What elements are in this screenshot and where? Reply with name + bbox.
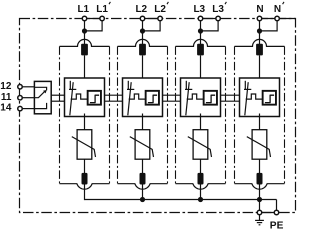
node junction L2 [140,28,145,33]
module L1 bottom edge with socket arc [60,184,110,190]
spark gap contact bar L2 [127,88,134,90]
wire plug L2 to PE bus [142,185,144,201]
spark gap moving electrode L1 [70,82,73,115]
mechanical coupling module L1-L2 (upper) [105,94,123,96]
module L3 top edge with plug socket arc [176,39,226,46]
trigger step symbol N [265,95,274,102]
bottom plug contact L1 (filled) [82,173,88,185]
wire plug L3 to PE bus [200,185,202,201]
svg-text:11: 11 [1,92,12,103]
module N boundary right (dash-dot) [284,46,286,183]
wire varistor to bottom plug N [259,159,261,175]
wire N&#8242; drop to junction [260,21,278,31]
svg-text:N: N [274,4,281,15]
ground symbol bar 1 [255,219,264,221]
bottom plug contact N (filled) [257,173,263,185]
module L1 boundary right (dash-dot) [109,46,111,183]
module L2 boundary right (dash-dot) [167,46,169,183]
wire disconnector to spark-gap box N [259,55,261,78]
node junction L3 [198,28,203,33]
spark gap electrode N [244,81,246,89]
module N bottom edge with socket arc [235,184,285,190]
spark gap contact bar L1 [69,88,76,90]
terminal 14 [18,106,23,111]
svg-text:PE: PE [270,221,284,232]
wire L2 drop to junction [142,21,144,44]
module L3 boundary right (dash-dot) [225,46,227,183]
mechanical coupling module L3-N (lower) [221,100,240,102]
mechanical coupling contact-to-module L1 (upper) [51,94,64,96]
svg-text:12: 12 [0,81,12,92]
wire spark-gap box to varistor L3 [200,114,202,130]
mechanical coupling module L2-L3 (upper) [163,94,181,96]
trigger tap square-wave link L2 [129,94,146,99]
module L2 boundary left (dash-dot) [117,46,119,183]
node PE bus junction N [257,197,262,202]
node PE bus junction L2 [140,197,145,202]
wire plug L1 to PE bus [84,185,86,201]
wire varistor to bottom plug L2 [142,159,144,175]
varistor L2 diagonal stroke [130,137,154,157]
terminal 11 [18,95,23,100]
mechanical coupling module L3-N (upper) [221,94,240,96]
contact 12 fixed (NC) [34,87,46,90]
outer enclosure dash-dot border [20,19,296,213]
spark gap contact bar N [244,88,251,90]
module N top edge with plug socket arc [235,39,285,46]
varistor N body [252,130,267,160]
spark gap electrode L1 [69,81,71,89]
wire L2&#8242; drop to junction [143,21,161,31]
thermal disconnector L1 (filled) [81,44,88,56]
thermal disconnector L2 (filled) [139,44,146,56]
spark gap contact bar L3 [185,88,192,90]
contact blade arrowhead [43,90,47,94]
wire disconnector to spark-gap box L1 [84,55,86,78]
ground symbol bar 3 [259,224,261,226]
bottom plug contact L2 (filled) [140,173,146,185]
trigger tap square-wave link L1 [71,94,88,99]
varistor L1 body [77,130,92,160]
spark gap electrode L3 [185,81,187,89]
wire L1 drop to junction [84,21,86,44]
thermal disconnector N (filled) [256,44,263,56]
trigger step symbol L3 [206,95,215,102]
module L2 bottom edge with socket arc [118,184,168,190]
wire varistor to bottom plug L3 [200,159,202,175]
spark-gap unit box L2 [123,78,163,117]
remote signalling contact box [34,81,51,113]
contact 14 fixed (NO) [34,103,46,109]
node junction N [257,28,262,33]
spark gap moving electrode L2 [128,82,131,115]
spark gap electrode L2 [127,81,129,89]
spark-gap unit box L3 [181,78,221,117]
wire N to N&#180; top link [260,18,278,20]
module L3 bottom edge with socket arc [176,184,226,190]
wire disconnector to spark-gap box L3 [200,55,202,78]
wire plug N to PE bus [259,185,261,201]
terminal N [257,16,262,21]
terminal L1&#8242; [100,16,105,21]
trigger tap square-wave link L3 [187,94,204,99]
wire L1 to L1&#180; top link [85,18,103,20]
terminal L3 [198,16,203,21]
trigger step symbol L1 [90,95,99,102]
varistor L2 body [135,130,150,160]
wire terminal 11 to contact box [23,97,35,99]
wire L3&#8242; drop to junction [201,21,219,31]
contact 11 common blade with arrow [34,92,44,98]
trigger step symbol L2 [148,95,157,102]
trigger unit box L2 [146,91,159,105]
terminal L2 [140,16,145,21]
wire L3 to L3&#180; top link [201,18,219,20]
ground symbol bar 2 [257,222,262,224]
wire spark-gap box to varistor N [259,114,261,130]
terminal L2&#8242; [158,16,163,21]
svg-text:L1: L1 [96,4,108,15]
mechanical coupling contact-to-module L1 (lower) [51,100,64,102]
wire L1&#8242; drop to junction [85,21,103,31]
terminal N&#8242; [275,16,280,21]
wire bus to earth terminal [259,200,261,211]
ground symbol stem [259,215,261,220]
varistor L1 diagonal stroke [72,137,96,157]
module N boundary left (dash-dot) [234,46,236,183]
terminal PE [274,210,279,215]
wire bus to PE terminal [276,200,278,211]
mechanical coupling module L1-L2 (lower) [105,100,123,102]
svg-text:L3: L3 [212,4,224,15]
wire L3 drop to junction [200,21,202,44]
mechanical coupling module L2-L3 (lower) [163,100,181,102]
trigger unit box N [263,91,276,105]
node PE bus junction L3 [198,197,203,202]
spark gap moving electrode N [245,82,248,115]
wire terminal 12 to contact box [23,86,35,88]
module L1 top edge with plug socket arc [60,39,110,46]
terminal 12 [18,85,23,90]
varistor L3 diagonal stroke [188,137,212,157]
wire spark-gap box to varistor L1 [84,114,86,130]
earth terminal [257,210,262,215]
wire terminal 14 to contact box [23,108,35,110]
svg-text:L2: L2 [154,4,166,15]
trigger tap square-wave link N [246,94,263,99]
terminal L3&#8242; [216,16,221,21]
svg-text:N: N [256,4,263,15]
wire N drop to junction [259,21,261,44]
svg-text:L1: L1 [77,4,89,15]
module L2 top edge with plug socket arc [118,39,168,46]
wire earth terminal to PE terminal [260,212,277,214]
varistor N diagonal stroke [247,137,271,157]
trigger unit box L3 [204,91,217,105]
wire N&#180; to top-right corner [277,18,295,20]
spark-gap unit box N [240,78,280,117]
PE bus wire [85,199,277,201]
node junction L1 [82,28,87,33]
wire L2 to L2&#180; top link [143,18,161,20]
spark gap moving electrode L3 [186,82,189,115]
svg-text:L2: L2 [135,4,147,15]
spark-gap unit box L1 [65,78,105,117]
bottom plug contact L3 (filled) [198,173,204,185]
wire disconnector to spark-gap box L2 [142,55,144,78]
module L3 boundary left (dash-dot) [175,46,177,183]
wire varistor to bottom plug L1 [84,159,86,175]
thermal disconnector L3 (filled) [197,44,204,56]
svg-text:14: 14 [0,103,12,114]
trigger unit box L1 [88,91,101,105]
module L1 boundary left (dash-dot) [59,46,61,183]
varistor L3 body [193,130,208,160]
wire spark-gap box to varistor L2 [142,114,144,130]
svg-text:L3: L3 [193,4,205,15]
terminal L1 [82,16,87,21]
